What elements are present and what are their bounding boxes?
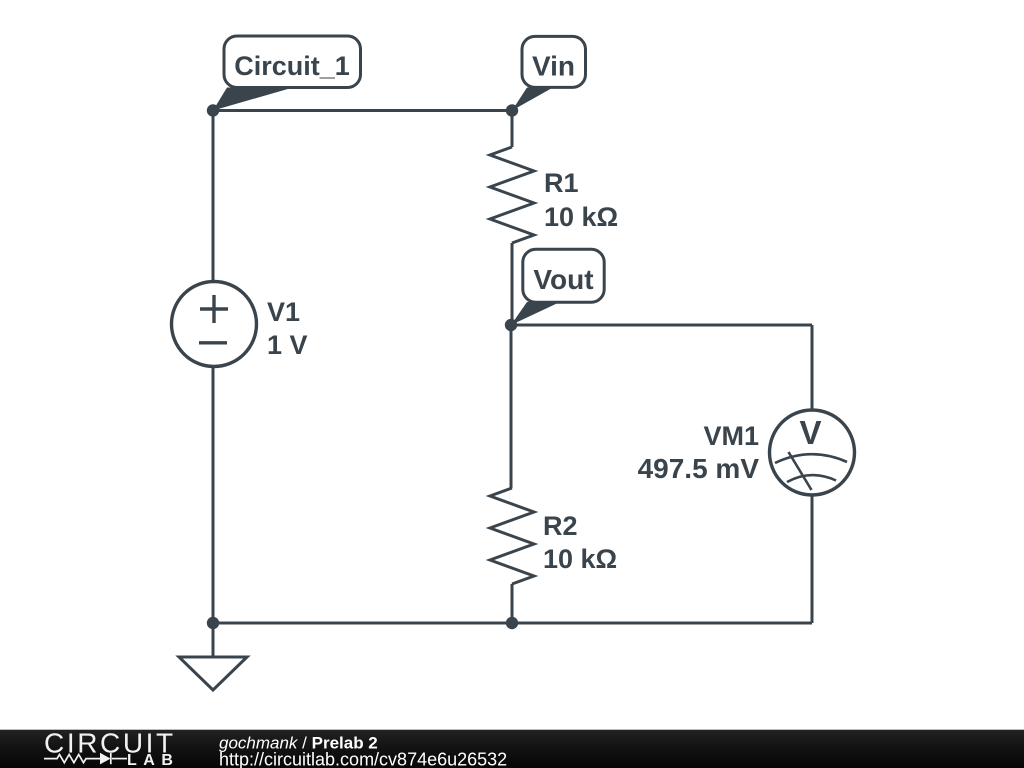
svg-text:10 kΩ: 10 kΩ [544,202,618,232]
resistor R2 [490,488,534,584]
svg-text:LAB: LAB [127,752,179,768]
wire: Vout node down to R2 top [510,325,513,488]
wire bottom rail: ground node to voltmeter branch [213,622,812,625]
voltmeter VM1 [770,410,855,495]
wire: corner down to voltmeter top [811,325,814,410]
logo CIRCUIT LAB [44,728,179,768]
svg-text:V1: V1 [267,297,300,327]
node ground junction dot [207,617,219,629]
node Vout junction dot [505,319,517,331]
wire left rail: V1 bottom to ground node [212,367,215,623]
node R2 bottom junction dot [506,617,518,629]
resistor R1 [490,147,534,243]
wire: Vout node to voltmeter branch corner [511,324,812,327]
label VM1 value [638,421,760,484]
svg-text:R2: R2 [543,511,578,541]
label voltmeter V glyph [799,414,821,451]
node label Vout [511,249,604,325]
wire left rail: top node to V1 top [212,111,215,282]
svg-text:VM1: VM1 [703,421,759,451]
wire: voltmeter bottom down to bottom rail [811,495,814,623]
wire: R1 bottom to Vout node [511,243,514,325]
svg-text:R1: R1 [544,168,579,198]
node Vin junction dot [506,104,518,116]
wire: Vin node down to R1 top [511,111,514,148]
svg-text:497.5 mV: 497.5 mV [638,453,760,484]
footer bar [0,730,1024,768]
label V1 value [267,297,308,360]
node label Vin [512,36,586,110]
wire top: Circuit_1 node to Vin node [213,109,512,112]
voltage source V1 [172,282,257,367]
ground [179,623,247,690]
node Circuit_1 junction dot [207,104,219,116]
svg-text:10 kΩ: 10 kΩ [543,544,617,574]
svg-text:http://circuitlab.com/cv874e6u: http://circuitlab.com/cv874e6u26532 [219,750,507,768]
svg-text:Circuit_1: Circuit_1 [234,51,350,81]
footer title text [219,734,507,768]
wire: R2 bottom to bottom rail node [511,584,514,623]
node label Circuit_1 [213,36,361,111]
label R2 value [543,511,617,574]
svg-text:Vout: Vout [533,264,593,295]
svg-text:1 V: 1 V [267,330,308,360]
label R1 value [544,168,618,232]
svg-text:Vin: Vin [532,51,575,82]
svg-text:V: V [799,414,821,451]
